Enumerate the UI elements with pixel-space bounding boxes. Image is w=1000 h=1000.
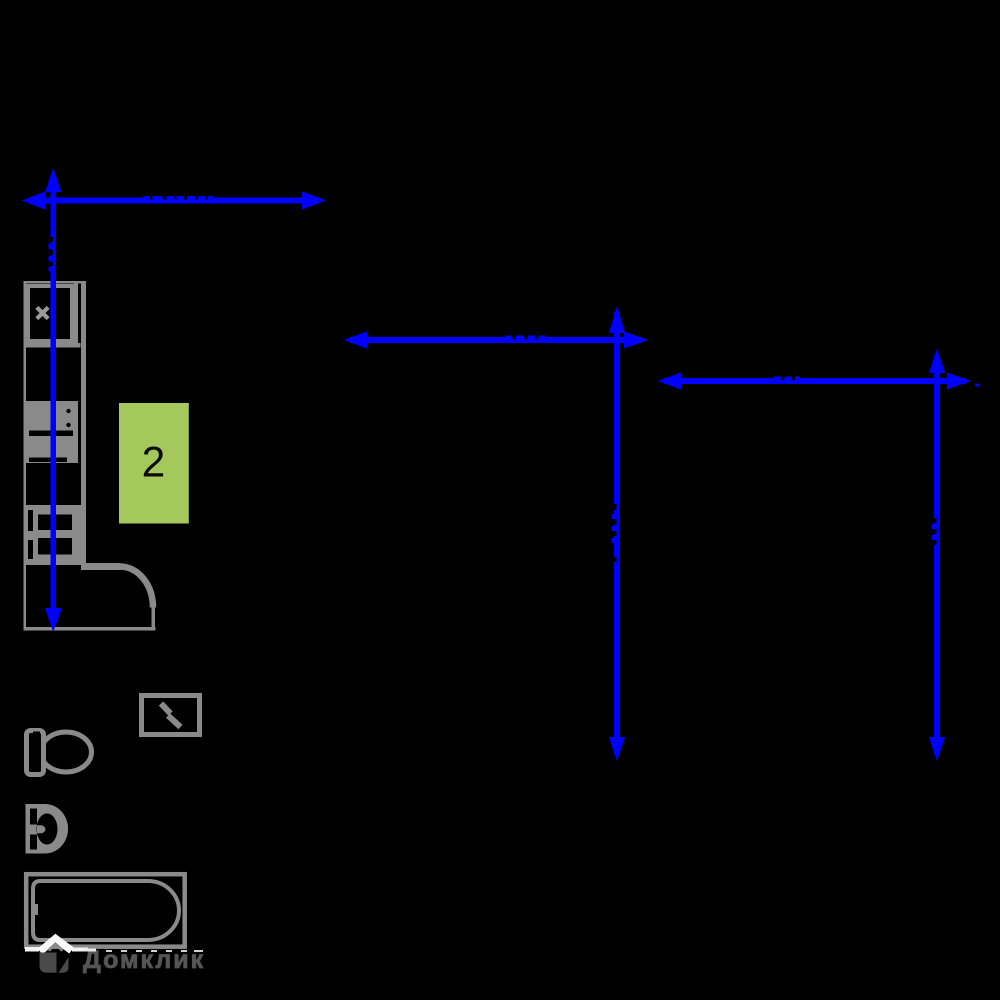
watermark house body wedge [59, 957, 69, 973]
toilet tank dash bottom [33, 770, 40, 773]
wall bottom line [24, 627, 156, 631]
dim H3 text notches [781, 378, 795, 380]
toilet tank dash top [33, 732, 40, 735]
wash basin body [26, 804, 69, 854]
sink cabinet slot 2 [28, 540, 33, 559]
wall divider under box A [24, 343, 81, 348]
x-mark in box A [35, 306, 49, 320]
stove dash 2 [29, 458, 67, 463]
sink cabinet block [25, 505, 81, 565]
stove dot 1 [66, 409, 70, 413]
wall right thin under curve [152, 605, 156, 629]
dim V3 shaft [934, 355, 940, 755]
wall curve [120, 567, 153, 608]
dim H3 stray dot [975, 384, 979, 387]
bathtub inner [33, 881, 179, 940]
green room label 2 [119, 403, 189, 524]
dim V1 shaft [51, 176, 57, 624]
dim V1 text notches [51, 237, 54, 266]
sink cabinet slot 1 [28, 510, 33, 531]
dim H2 shaft [350, 337, 642, 343]
toilet tank [27, 731, 44, 775]
wall top cap [24, 281, 86, 284]
watermark house body left [40, 953, 57, 973]
dim V3 text bumps [932, 524, 935, 540]
dim V2 text bumps [612, 514, 615, 543]
dim H1 arrow right [302, 192, 326, 210]
wash basin slot top [30, 809, 37, 825]
dim H1 shaft [28, 198, 320, 204]
dim V1 arrow down [45, 608, 62, 632]
dim V3 arrow down [929, 737, 945, 761]
dim H1 arrow left [22, 192, 45, 210]
watermark house roof [40, 939, 72, 952]
watermark white line right [72, 948, 88, 952]
watermark white ticks above letters [106, 950, 203, 952]
wash basin slot bottom [30, 835, 37, 850]
watermark roof inner chevron [49, 944, 63, 951]
electrical box [142, 696, 200, 735]
watermark white dash above D [84, 949, 96, 952]
sink cabinet hole 1 [38, 515, 72, 531]
appliance box A [28, 286, 72, 341]
wash basin bowl [37, 814, 58, 845]
dim H1 text notches [150, 196, 208, 199]
dim H3 arrow right [947, 373, 971, 390]
dim V1 text bumps [49, 244, 52, 271]
dim V2 text notches [614, 504, 617, 562]
dim H2 arrow right [624, 332, 648, 349]
dim H3 shaft [664, 378, 965, 384]
wash basin tap [37, 825, 46, 833]
stove dash 1 [29, 431, 73, 437]
dim V2 arrow down [609, 737, 625, 761]
wall right double inner line [74, 283, 78, 343]
watermark white line left [25, 947, 39, 952]
sink cabinet hole 2 [38, 538, 72, 555]
dim H2 text bumps [505, 336, 545, 338]
dim V3 text notches [934, 518, 937, 545]
wall run bottom horizontal [81, 563, 120, 570]
wall left outer [24, 281, 27, 629]
dim V2 arrow up [609, 306, 625, 333]
bathtub tap tab [31, 904, 38, 915]
stove block [26, 401, 78, 463]
stove dot 2 [66, 423, 70, 427]
dim V2 shaft [614, 312, 620, 755]
bathtub outer [26, 874, 185, 947]
dim V3 arrow up [929, 349, 945, 373]
toilet bowl [41, 732, 92, 772]
electrical box zigzag [161, 704, 181, 728]
svg-text:2: 2 [142, 440, 166, 487]
dim H2 arrow left [344, 332, 367, 349]
wall right main [81, 281, 86, 570]
dim H2 text notches [513, 337, 539, 339]
dim V1 arrow up [45, 168, 61, 192]
dim H1 text bumps [143, 196, 213, 198]
dim H3 text bumps [774, 377, 800, 379]
dim H3 arrow left [658, 373, 681, 390]
